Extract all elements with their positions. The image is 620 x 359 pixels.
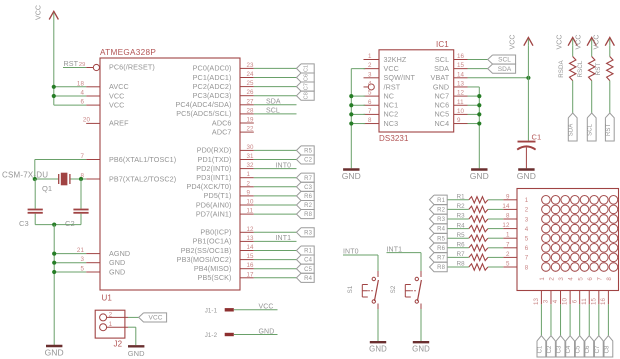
svg-text:31: 31 — [247, 153, 255, 160]
svg-text:GND: GND — [470, 171, 489, 181]
svg-text:18: 18 — [77, 80, 85, 87]
svg-text:VCC: VCC — [575, 34, 582, 49]
svg-text:5: 5 — [368, 90, 372, 97]
svg-text:7: 7 — [506, 241, 510, 248]
svg-text:S1: S1 — [347, 285, 354, 293]
svg-text:PD0(RXD): PD0(RXD) — [197, 146, 232, 155]
svg-text:ADC7: ADC7 — [212, 127, 232, 136]
svg-text:NC1: NC1 — [384, 101, 399, 110]
svg-text:11: 11 — [581, 298, 588, 305]
svg-text:R4: R4 — [437, 227, 445, 233]
svg-text:RST: RST — [606, 124, 612, 137]
svg-text:R6: R6 — [304, 194, 312, 200]
svg-text:17: 17 — [247, 271, 255, 278]
svg-text:15: 15 — [247, 253, 255, 260]
svg-text:7: 7 — [596, 277, 603, 281]
svg-text:PB7(XTAL2/TOSC2): PB7(XTAL2/TOSC2) — [109, 174, 176, 183]
svg-text:VBAT: VBAT — [431, 73, 450, 82]
svg-text:SDA: SDA — [434, 64, 449, 73]
svg-text:9: 9 — [506, 193, 510, 200]
svg-text:2: 2 — [506, 251, 510, 258]
svg-text:23: 23 — [247, 62, 255, 69]
svg-text:PD5(T1): PD5(T1) — [204, 191, 232, 200]
svg-text:SCL: SCL — [266, 108, 280, 115]
svg-text:30: 30 — [247, 144, 255, 151]
svg-text:C2: C2 — [547, 345, 553, 353]
svg-text:19: 19 — [247, 117, 255, 124]
svg-text:14: 14 — [502, 203, 510, 210]
svg-text:R4: R4 — [304, 276, 312, 282]
svg-text:11: 11 — [247, 208, 254, 215]
svg-text:GND: GND — [433, 82, 449, 91]
svg-text:GND: GND — [259, 328, 275, 335]
svg-text:5: 5 — [577, 277, 584, 281]
svg-text:15: 15 — [457, 62, 465, 69]
svg-text:PB1(OC1A): PB1(OC1A) — [193, 237, 232, 246]
svg-text:RSCL: RSCL — [577, 60, 584, 77]
svg-text:SDA: SDA — [498, 66, 512, 73]
svg-text:PB3(MOSI/OC2): PB3(MOSI/OC2) — [177, 255, 232, 264]
svg-text:R8: R8 — [437, 265, 445, 271]
svg-text:C7: C7 — [304, 83, 310, 90]
svg-text:GND: GND — [369, 345, 387, 354]
svg-text:R3: R3 — [304, 230, 312, 236]
svg-text:J1-1: J1-1 — [205, 307, 218, 314]
svg-text:VCC: VCC — [510, 34, 517, 49]
svg-text:NC4: NC4 — [435, 119, 450, 128]
svg-text:GND: GND — [517, 171, 536, 181]
svg-text:NC7: NC7 — [435, 91, 450, 100]
svg-text:C3: C3 — [19, 219, 29, 228]
svg-text:PD1(TXD): PD1(TXD) — [198, 155, 232, 164]
svg-text:C7: C7 — [595, 345, 601, 353]
svg-text:R5: R5 — [437, 236, 445, 242]
svg-text:PB6(XTAL1/TOSC1): PB6(XTAL1/TOSC1) — [109, 155, 176, 164]
svg-text:RST: RST — [595, 63, 602, 76]
svg-text:C4: C4 — [304, 258, 312, 264]
svg-text:GND: GND — [109, 258, 125, 267]
svg-text:3: 3 — [543, 299, 550, 303]
svg-text:ATMEGA328P: ATMEGA328P — [100, 48, 156, 57]
svg-text:SDA: SDA — [569, 124, 575, 137]
svg-text:C1: C1 — [532, 133, 542, 142]
svg-text:GND: GND — [412, 345, 430, 354]
svg-text:C6: C6 — [304, 74, 310, 81]
svg-text:7: 7 — [80, 153, 84, 160]
svg-text:GND: GND — [342, 171, 361, 181]
svg-text:2: 2 — [368, 62, 372, 69]
svg-text:C3: C3 — [557, 345, 563, 353]
svg-text:VCC: VCC — [36, 5, 43, 20]
svg-text:R3: R3 — [437, 217, 445, 223]
svg-text:IC1: IC1 — [436, 40, 449, 49]
svg-text:SCL: SCL — [588, 123, 594, 136]
svg-text:28: 28 — [247, 107, 255, 114]
svg-text:Q1: Q1 — [42, 184, 52, 193]
svg-text:7: 7 — [525, 255, 529, 262]
svg-text:9: 9 — [247, 189, 251, 196]
svg-text:C1: C1 — [537, 345, 543, 353]
svg-text:R7: R7 — [437, 256, 445, 262]
svg-text:NC5: NC5 — [435, 110, 450, 119]
svg-text:4: 4 — [552, 299, 559, 303]
svg-text:PC1(ADC1): PC1(ADC1) — [193, 73, 232, 82]
svg-text:4: 4 — [368, 80, 372, 87]
svg-text:C3: C3 — [304, 185, 312, 191]
svg-text:AVCC: AVCC — [109, 82, 129, 91]
svg-text:NC2: NC2 — [384, 110, 399, 119]
svg-text:R2: R2 — [304, 203, 312, 209]
svg-text:NC: NC — [384, 91, 395, 100]
svg-text:6: 6 — [80, 99, 84, 106]
svg-text:14: 14 — [457, 71, 465, 78]
svg-text:PD7(AIN1): PD7(AIN1) — [196, 209, 232, 218]
svg-text:26: 26 — [247, 89, 255, 96]
svg-text:R1: R1 — [304, 249, 312, 255]
svg-text:12: 12 — [457, 90, 465, 97]
svg-text:R2: R2 — [437, 208, 445, 214]
svg-text:3: 3 — [80, 256, 84, 263]
svg-text:GND: GND — [45, 348, 64, 358]
svg-text:VCC: VCC — [259, 304, 274, 311]
svg-text:16: 16 — [600, 298, 607, 306]
svg-text:10: 10 — [247, 199, 255, 206]
svg-text:CSM-7X-DU: CSM-7X-DU — [2, 170, 48, 179]
svg-text:16: 16 — [247, 262, 255, 269]
svg-text:R7: R7 — [304, 176, 312, 182]
svg-text:PC3(ADC3): PC3(ADC3) — [193, 91, 232, 100]
svg-text:VCC: VCC — [109, 100, 124, 109]
svg-text:8: 8 — [506, 213, 510, 220]
svg-text:2: 2 — [247, 180, 251, 187]
svg-text:3: 3 — [558, 277, 565, 281]
svg-text:8: 8 — [368, 117, 372, 124]
svg-text:5: 5 — [80, 266, 84, 273]
svg-text:NC6: NC6 — [435, 101, 450, 110]
svg-text:3: 3 — [525, 216, 529, 223]
svg-text:10: 10 — [562, 298, 569, 306]
svg-text:12: 12 — [502, 222, 510, 229]
svg-text:12: 12 — [247, 226, 255, 233]
svg-text:R6: R6 — [437, 246, 445, 252]
svg-text:4: 4 — [568, 277, 575, 281]
svg-text:PB2(SS/OC1B): PB2(SS/OC1B) — [181, 246, 232, 255]
svg-text:AGND: AGND — [109, 249, 130, 258]
svg-text:6: 6 — [525, 245, 529, 252]
svg-text:C1: C1 — [304, 65, 310, 72]
svg-text:VCC: VCC — [594, 34, 601, 49]
svg-text:25: 25 — [247, 80, 255, 87]
svg-text:SQW/INT: SQW/INT — [384, 73, 416, 82]
svg-text:PD6(AIN0): PD6(AIN0) — [196, 200, 232, 209]
svg-text:PB4(MISO): PB4(MISO) — [194, 264, 232, 273]
svg-text:PC0(ADC0): PC0(ADC0) — [193, 64, 232, 73]
svg-text:PC4(ADC4/SDA): PC4(ADC4/SDA) — [175, 100, 231, 109]
svg-text:32: 32 — [247, 162, 255, 169]
svg-text:RST: RST — [64, 59, 79, 68]
svg-text:ADC6: ADC6 — [212, 118, 232, 127]
svg-text:INT1: INT1 — [276, 235, 292, 242]
svg-text:GND: GND — [128, 349, 145, 358]
svg-text:13: 13 — [533, 298, 540, 306]
svg-text:S2: S2 — [390, 285, 397, 293]
svg-text:6: 6 — [571, 299, 578, 303]
svg-text:PC6(/RESET): PC6(/RESET) — [109, 63, 155, 72]
svg-text:2: 2 — [549, 277, 556, 281]
svg-text:GND: GND — [109, 267, 125, 276]
svg-text:C2: C2 — [304, 158, 312, 164]
svg-text:R8: R8 — [304, 212, 312, 218]
svg-text:24: 24 — [247, 71, 255, 78]
svg-text:11: 11 — [457, 99, 464, 106]
svg-text:C4: C4 — [566, 345, 572, 353]
svg-text:16: 16 — [457, 53, 465, 60]
svg-text:SCL: SCL — [498, 57, 511, 64]
svg-text:C2: C2 — [65, 219, 75, 228]
svg-text:13: 13 — [457, 80, 465, 87]
svg-text:PD3(INT1): PD3(INT1) — [196, 173, 231, 182]
svg-text:NC3: NC3 — [384, 119, 399, 128]
svg-text:4: 4 — [525, 226, 529, 233]
svg-text:PB5(SCK): PB5(SCK) — [198, 273, 232, 282]
svg-text:VCC: VCC — [384, 64, 399, 73]
svg-text:PB0(ICP): PB0(ICP) — [200, 228, 231, 237]
svg-text:13: 13 — [247, 235, 255, 242]
svg-text:6: 6 — [368, 99, 372, 106]
svg-text:U1: U1 — [102, 294, 113, 303]
svg-text:1: 1 — [506, 232, 510, 239]
svg-text:R1: R1 — [437, 198, 445, 204]
svg-text:4: 4 — [80, 90, 84, 97]
svg-text:29: 29 — [79, 62, 86, 68]
svg-text:14: 14 — [247, 244, 255, 251]
svg-text:SCL: SCL — [435, 55, 449, 64]
svg-text:20: 20 — [83, 116, 91, 123]
svg-text:C6: C6 — [585, 345, 591, 353]
svg-text:INT0: INT0 — [276, 162, 292, 169]
svg-text:32KHZ: 32KHZ — [384, 55, 407, 64]
svg-text:5: 5 — [506, 261, 510, 268]
svg-text:RSDA: RSDA — [558, 59, 565, 77]
svg-text:VCC: VCC — [109, 91, 124, 100]
svg-text:PC5(ADC5/SCL): PC5(ADC5/SCL) — [176, 109, 231, 118]
svg-text:SDA: SDA — [266, 99, 281, 106]
svg-text:PD2(INT0): PD2(INT0) — [196, 164, 231, 173]
svg-text:VCC: VCC — [149, 315, 163, 322]
svg-text:/RST: /RST — [384, 82, 401, 91]
svg-text:1: 1 — [525, 197, 529, 204]
svg-text:7: 7 — [368, 108, 372, 115]
svg-text:27: 27 — [247, 98, 255, 105]
svg-text:1: 1 — [247, 171, 251, 178]
svg-text:6: 6 — [587, 277, 594, 281]
svg-text:8: 8 — [525, 264, 529, 271]
svg-text:C5: C5 — [304, 267, 312, 273]
svg-text:J1-2: J1-2 — [205, 332, 218, 339]
svg-text:VCC: VCC — [556, 34, 563, 49]
svg-text:1: 1 — [368, 53, 372, 60]
svg-text:21: 21 — [77, 247, 85, 254]
svg-text:3: 3 — [368, 71, 372, 78]
svg-text:C8: C8 — [604, 345, 610, 353]
svg-text:5: 5 — [525, 236, 529, 243]
svg-text:2: 2 — [525, 207, 529, 214]
svg-text:8: 8 — [606, 277, 613, 281]
svg-text:22: 22 — [247, 126, 255, 133]
svg-text:10: 10 — [457, 108, 465, 115]
svg-text:PD4(XCK/T0): PD4(XCK/T0) — [186, 182, 231, 191]
svg-text:AREF: AREF — [109, 119, 129, 128]
svg-text:15: 15 — [590, 298, 597, 306]
svg-text:DS3231: DS3231 — [379, 134, 409, 143]
svg-text:R5: R5 — [304, 149, 312, 155]
svg-text:C8: C8 — [304, 92, 310, 99]
svg-text:C5: C5 — [576, 345, 582, 353]
svg-text:PC2(ADC2): PC2(ADC2) — [193, 82, 232, 91]
svg-text:1: 1 — [539, 277, 546, 281]
svg-text:9: 9 — [457, 117, 461, 124]
svg-text:J2: J2 — [114, 340, 123, 349]
